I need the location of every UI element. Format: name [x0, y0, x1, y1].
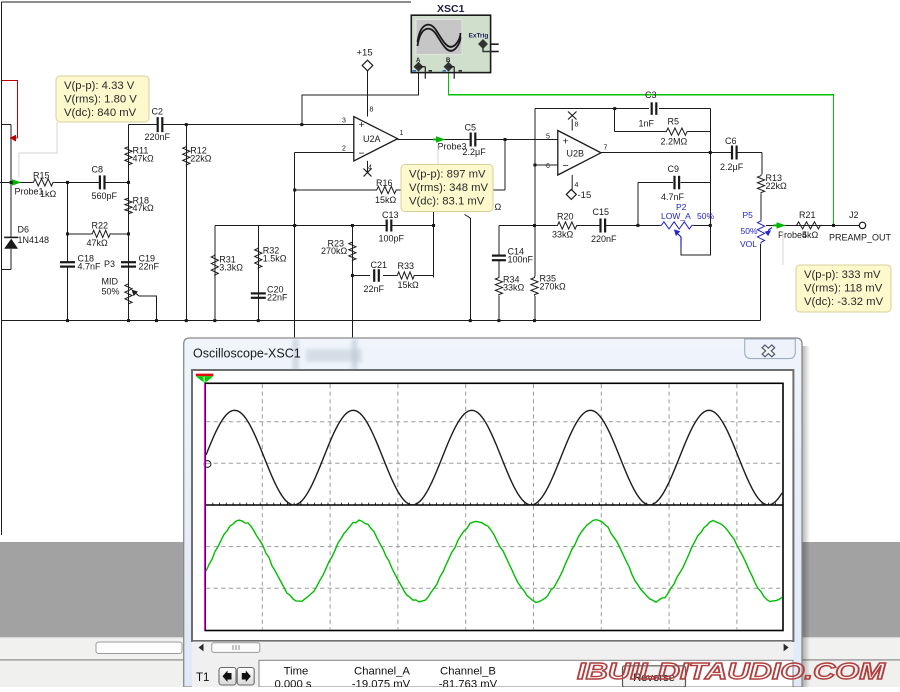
svg-text:22kΩ: 22kΩ [766, 181, 788, 191]
svg-text:220nF: 220nF [145, 132, 171, 142]
tooltip leader lines [19, 122, 57, 178]
capacitor C19 [121, 261, 136, 263]
svg-text:R5: R5 [668, 117, 680, 127]
svg-text:8: 8 [370, 107, 374, 114]
wire U2B out row [601, 152, 731, 154]
wire feedback right vertical [709, 109, 711, 226]
tooltip probe1 [56, 76, 149, 122]
power -15 [571, 175, 573, 190]
close button [745, 339, 796, 359]
capacitor C18 [60, 261, 75, 263]
svg-text:C2: C2 [152, 107, 164, 117]
app horizontal scrollbar strip [0, 637, 900, 660]
svg-text:C15: C15 [593, 207, 610, 217]
svg-text:0.000 s: 0.000 s [274, 679, 311, 688]
wire R16 row [295, 189, 376, 191]
svg-text:D6: D6 [18, 225, 30, 235]
wire P5 bottom to bus [760, 244, 762, 321]
svg-text:5: 5 [546, 134, 550, 141]
status bar separator [0, 659, 900, 660]
resistor R34 [495, 276, 502, 295]
svg-text:220nF: 220nF [591, 234, 617, 244]
window frame [184, 338, 802, 687]
svg-text:R22: R22 [92, 220, 109, 230]
svg-text:2.2MΩ: 2.2MΩ [661, 136, 688, 146]
wire input row (R15 row) [0, 181, 32, 183]
wire red net arrow [2, 80, 18, 138]
svg-text:47kΩ: 47kΩ [87, 238, 109, 248]
svg-text:U2B: U2B [567, 148, 585, 158]
svg-text:LOW_A: LOW_A [661, 211, 691, 221]
svg-text:1: 1 [400, 130, 404, 137]
wire R23 rail [351, 226, 353, 346]
tooltip probe3 [401, 165, 493, 212]
window client area [192, 370, 793, 687]
wire bottom bus [1, 320, 761, 322]
svg-text:1.5kΩ: 1.5kΩ [263, 253, 287, 263]
waveform channel B (green) [206, 520, 782, 603]
svg-text:R15: R15 [33, 171, 50, 181]
svg-text:VOL: VOL [740, 239, 757, 249]
svg-text:2.2μF: 2.2μF [463, 147, 487, 157]
svg-text:PREAMP_OUT: PREAMP_OUT [829, 232, 892, 242]
svg-text:C8: C8 [92, 165, 104, 175]
svg-text:V(p-p): 897 mV: V(p-p): 897 mV [409, 169, 486, 181]
wire R32/C20 branch [257, 226, 259, 321]
T1 right button [237, 668, 254, 686]
svg-text:V(rms): 348 mV: V(rms): 348 mV [409, 182, 489, 194]
resistor R32 [255, 247, 262, 269]
wire P5 wiper to J2 [766, 224, 860, 226]
wire U2B minus input [535, 164, 558, 166]
svg-text:33kΩ: 33kΩ [503, 282, 525, 292]
probe Probe1 [12, 179, 22, 185]
capacitor C6 [731, 146, 733, 160]
svg-text:V(rms): 1.80 V: V(rms): 1.80 V [64, 94, 137, 106]
svg-text:50%: 50% [102, 286, 120, 296]
node junctions [10, 181, 13, 184]
svg-text:270kΩ: 270kΩ [321, 246, 348, 256]
svg-text:4.7nF: 4.7nF [78, 261, 102, 271]
svg-text:Ω: Ω [495, 202, 502, 212]
waveform channel A (black) [206, 410, 782, 505]
wire C9 loop [638, 182, 673, 184]
svg-text:R16: R16 [376, 178, 393, 188]
resistor R5 [665, 128, 689, 135]
capacitor C3 [651, 102, 653, 115]
wire P2 wiper loop [681, 225, 710, 255]
capacitor C21 [373, 269, 375, 282]
svg-text:47kΩ: 47kΩ [133, 203, 155, 213]
svg-text:V(dc): 840 mV: V(dc): 840 mV [64, 107, 137, 119]
svg-text:Probe1: Probe1 [15, 187, 44, 197]
svg-text:2.2μF: 2.2μF [720, 162, 744, 172]
resistor R35 [531, 276, 538, 295]
svg-text:15kΩ: 15kΩ [398, 280, 420, 290]
potentiometer P5 VOL [757, 219, 764, 243]
svg-text:-81.763 mV: -81.763 mV [439, 679, 498, 688]
svg-text:ExTrig: ExTrig [469, 33, 489, 40]
resistor R15 [32, 179, 54, 186]
resistor R16 [375, 186, 397, 193]
svg-text:6: 6 [546, 163, 550, 170]
svg-text:100nF: 100nF [508, 254, 534, 264]
wire scope B channel green [449, 70, 834, 226]
wire U2A minus rail [294, 152, 296, 345]
wire scope A channel [302, 70, 419, 125]
resistor R12 [183, 145, 190, 166]
wire C3 feedback top [535, 108, 649, 110]
wire U2A minus input [295, 151, 354, 153]
channel A ref marker [204, 461, 211, 468]
capacitor C15 [599, 219, 601, 233]
wire corner to D6 rail [2, 123, 12, 125]
svg-text:V(dc): 83.1 mV: V(dc): 83.1 mV [409, 196, 485, 208]
svg-text:8: 8 [575, 122, 579, 129]
resistor R31 [211, 254, 218, 276]
pin8 no-connect X [571, 119, 573, 131]
svg-text:T1: T1 [196, 672, 209, 684]
wire top rail [2, 1, 412, 3]
scope scrollbar [193, 642, 792, 654]
watermark [577, 658, 886, 684]
svg-text:50%: 50% [741, 226, 758, 236]
svg-text:3: 3 [342, 118, 346, 125]
svg-text:100pF: 100pF [379, 233, 405, 243]
wire D6 rail upper [10, 124, 12, 237]
capacitor C20 [251, 292, 266, 294]
svg-text:MID: MID [102, 277, 119, 287]
svg-text:P5: P5 [743, 210, 754, 220]
resistor R18 [125, 197, 132, 215]
tooltip probe4 [796, 265, 891, 312]
svg-text:50%: 50% [697, 211, 714, 221]
svg-text:+15: +15 [357, 48, 373, 59]
wire mid row (C13 row) [215, 225, 386, 227]
T1 cursor [204, 384, 206, 631]
svg-text:47kΩ: 47kΩ [133, 153, 155, 163]
svg-text:Oscilloscope-XSC1: Oscilloscope-XSC1 [193, 347, 301, 361]
svg-text:C3: C3 [645, 90, 657, 100]
svg-text:C9: C9 [668, 164, 680, 174]
svg-text:2: 2 [342, 145, 346, 152]
capacitor C14 [492, 255, 506, 257]
svg-text:22nF: 22nF [267, 292, 288, 302]
scope readout table [259, 660, 793, 687]
wire D6 rail lower [10, 249, 12, 270]
reverse button [623, 666, 686, 687]
svg-text:Channel_A: Channel_A [354, 666, 410, 678]
wire MID wiper [139, 296, 157, 321]
capacitor C13 [386, 220, 388, 232]
wire left edge rail [1, 2, 3, 535]
app scrollbar thumb (left) [96, 642, 182, 654]
svg-text:-19.075 mV: -19.075 mV [352, 679, 411, 688]
svg-text:1nF: 1nF [639, 118, 655, 128]
pin4 no-connect X [367, 161, 369, 172]
wire P2 right end [694, 224, 710, 226]
svg-text:1N4148: 1N4148 [18, 235, 50, 245]
svg-text:V(p-p): 4.33 V: V(p-p): 4.33 V [64, 80, 135, 92]
svg-text:−: − [359, 148, 365, 160]
svg-text:22nF: 22nF [364, 284, 385, 294]
capacitor C9 [673, 176, 675, 190]
svg-text:C13: C13 [382, 210, 399, 220]
resistor R13 [757, 175, 764, 194]
svg-text:+: + [359, 119, 365, 131]
svg-text:C6: C6 [725, 136, 737, 146]
svg-text:C21: C21 [371, 260, 388, 270]
svg-text:33kΩ: 33kΩ [552, 230, 574, 240]
capacitor C5 [470, 133, 472, 147]
hidden pot P1 branch [469, 218, 471, 321]
workspace gray band [0, 542, 900, 637]
wire C14 stem [498, 226, 500, 256]
wire R22 row [68, 233, 92, 235]
probe Probe4 [777, 222, 787, 228]
icon terminal ExTrig [478, 39, 488, 49]
potentiometer P3 MID [125, 282, 132, 305]
svg-text:5kΩ: 5kΩ [802, 230, 819, 240]
wire C18 rail [67, 182, 69, 262]
resistor R22 [91, 230, 111, 237]
connector J2 [859, 222, 865, 228]
svg-text:V(dc): -3.32 mV: V(dc): -3.32 mV [804, 296, 884, 308]
svg-text:Channel_B: Channel_B [440, 666, 496, 678]
resistor R23 [349, 241, 356, 262]
svg-text:R21: R21 [799, 210, 816, 220]
resistor R33 [396, 272, 415, 279]
wire R5 branch [614, 109, 616, 132]
svg-text:7: 7 [604, 145, 608, 152]
svg-text:P3: P3 [104, 259, 115, 269]
wire R13 to P5 [760, 194, 762, 220]
wire C21/R33 row [352, 275, 370, 277]
wire C6 corner down to R13 [761, 153, 763, 175]
svg-text:+: + [563, 135, 569, 147]
svg-text:-15: -15 [578, 190, 592, 201]
svg-text:3.3kΩ: 3.3kΩ [219, 262, 243, 272]
wire C8/R11 rail [128, 125, 130, 321]
capacitor C2 [157, 117, 159, 132]
diode D6 [4, 239, 18, 249]
resistor R21 [795, 222, 822, 229]
opamp U2B [558, 131, 601, 176]
resistor R20 [556, 222, 578, 229]
svg-text:R20: R20 [557, 212, 574, 222]
svg-text:R33: R33 [398, 261, 415, 271]
svg-text:U2A: U2A [363, 134, 381, 144]
svg-text:−: − [563, 160, 569, 172]
wire R12 rail [185, 125, 187, 321]
svg-text:4: 4 [575, 182, 579, 189]
svg-text:22nF: 22nF [139, 261, 160, 271]
channel A axis [206, 504, 783, 506]
wire R31 branch [214, 226, 216, 321]
T1 left button [219, 668, 236, 686]
svg-text:V(rms): 118 mV: V(rms): 118 mV [804, 283, 883, 295]
svg-text:V(p-p): 333 mV: V(p-p): 333 mV [804, 269, 881, 281]
svg-text:15kΩ: 15kΩ [375, 195, 397, 205]
svg-text:Time: Time [284, 666, 309, 678]
svg-text:560pF: 560pF [92, 191, 118, 201]
capacitor C8 [99, 175, 101, 189]
wire R35 rail / U2B feedback rail [534, 109, 536, 277]
svg-text:J2: J2 [849, 210, 859, 220]
resistor R11 [125, 145, 132, 166]
wire right node vertical [433, 190, 435, 277]
svg-text:IBUILDITAUDIO.COM: IBUILDITAUDIO.COM [577, 658, 886, 684]
wire C5 node down [504, 140, 506, 191]
svg-text:270kΩ: 270kΩ [540, 281, 567, 291]
wire R20/C15 row [535, 225, 557, 227]
svg-text:22kΩ: 22kΩ [190, 153, 212, 163]
probe Probe3 [436, 136, 446, 142]
wire +15 to pin8 [367, 71, 369, 117]
potentiometer P2 LOW_A [659, 222, 694, 229]
opamp U2A [354, 117, 398, 161]
svg-text:C5: C5 [465, 122, 477, 132]
scope screen [205, 383, 783, 630]
wire C2 row to opamp [129, 124, 158, 126]
svg-text:XSC1: XSC1 [437, 3, 465, 15]
wire U2A out to U2B plus [398, 139, 470, 141]
svg-text:4.7nF: 4.7nF [661, 192, 685, 202]
